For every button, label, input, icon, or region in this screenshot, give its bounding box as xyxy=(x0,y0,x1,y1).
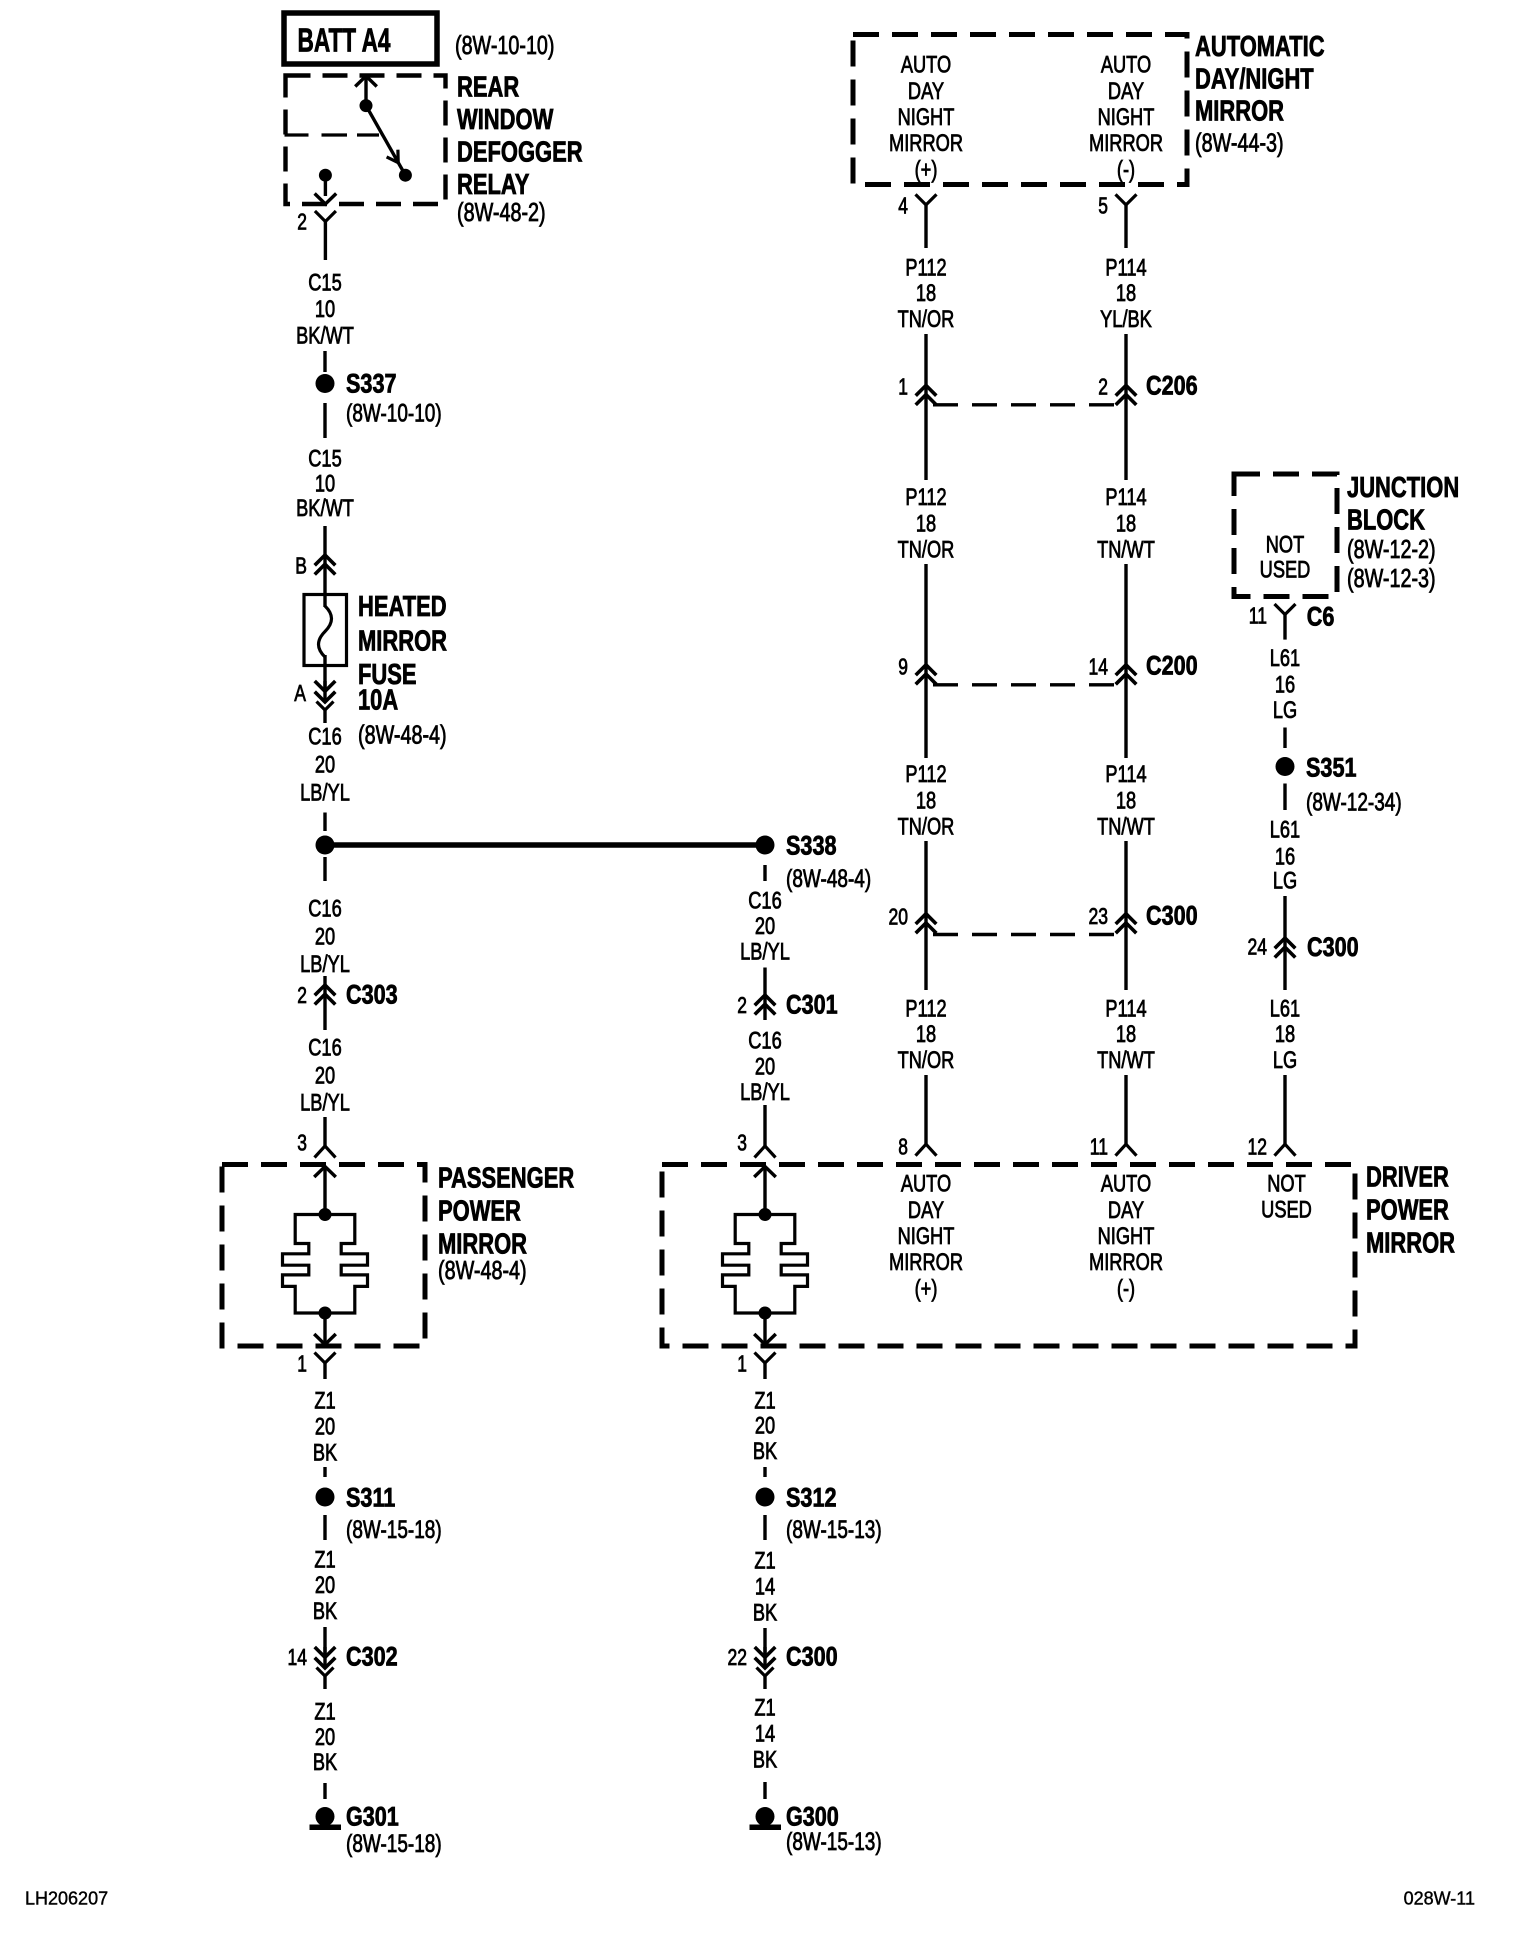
svg-text:20: 20 xyxy=(889,903,909,929)
automatic day/night mirror box xyxy=(853,35,1187,185)
ground G300 xyxy=(756,1807,775,1826)
svg-text:18: 18 xyxy=(916,280,936,307)
svg-text:(8W-15-18): (8W-15-18) xyxy=(346,1830,442,1858)
svg-text:LB/YL: LB/YL xyxy=(300,1090,350,1117)
svg-text:BK: BK xyxy=(753,1747,777,1774)
svg-text:Z1: Z1 xyxy=(314,1699,335,1726)
svg-text:HEATED: HEATED xyxy=(358,591,447,623)
svg-text:C16: C16 xyxy=(748,888,782,915)
svg-text:14: 14 xyxy=(288,1644,308,1670)
svg-text:S311: S311 xyxy=(346,1483,395,1513)
svg-text:20: 20 xyxy=(315,1572,335,1599)
svg-text:C16: C16 xyxy=(308,1035,342,1062)
power feed box BATT A4 xyxy=(284,13,437,64)
driver mirror heater exit arrow xyxy=(763,1313,766,1343)
svg-text:10: 10 xyxy=(315,471,335,498)
svg-text:TN/WT: TN/WT xyxy=(1097,814,1155,841)
svg-text:L61: L61 xyxy=(1270,996,1300,1023)
svg-text:4: 4 xyxy=(898,192,908,218)
connector C206 pin 2 xyxy=(1124,334,1127,480)
svg-text:TN/OR: TN/OR xyxy=(898,1047,955,1074)
relay switch blade with arrowhead xyxy=(366,106,405,176)
splice S337 xyxy=(316,374,335,393)
svg-text:(8W-10-10): (8W-10-10) xyxy=(455,30,555,60)
svg-text:L61: L61 xyxy=(1270,645,1300,672)
svg-text:BATT A4: BATT A4 xyxy=(298,21,391,58)
svg-text:2: 2 xyxy=(297,208,307,234)
connector C200 pin 14 xyxy=(1124,564,1127,758)
svg-text:G301: G301 xyxy=(346,1802,399,1832)
svg-text:AUTO: AUTO xyxy=(901,52,951,79)
svg-text:028W-11: 028W-11 xyxy=(1404,1889,1475,1909)
svg-text:DRIVER: DRIVER xyxy=(1366,1161,1449,1193)
svg-text:C303: C303 xyxy=(346,980,398,1010)
relay K1 rear window defogger relay box xyxy=(286,76,446,205)
svg-text:BLOCK: BLOCK xyxy=(1347,504,1425,536)
svg-text:(8W-12-2): (8W-12-2) xyxy=(1347,534,1436,564)
svg-text:NOT: NOT xyxy=(1267,1171,1306,1198)
svg-text:(-): (-) xyxy=(1117,156,1135,183)
svg-text:BK: BK xyxy=(753,1600,777,1627)
svg-text:NIGHT: NIGHT xyxy=(898,104,955,131)
svg-text:24: 24 xyxy=(1248,933,1268,959)
svg-text:Z1: Z1 xyxy=(314,1388,335,1415)
svg-text:C16: C16 xyxy=(308,896,342,923)
svg-text:LB/YL: LB/YL xyxy=(740,939,790,966)
relay divider dashed line xyxy=(285,133,380,136)
svg-text:(+): (+) xyxy=(915,156,938,183)
svg-text:14: 14 xyxy=(1089,653,1109,679)
svg-text:3: 3 xyxy=(297,1129,307,1155)
svg-text:12: 12 xyxy=(1248,1133,1268,1159)
svg-text:(8W-12-3): (8W-12-3) xyxy=(1347,563,1436,593)
svg-text:20: 20 xyxy=(315,924,335,951)
svg-text:23: 23 xyxy=(1089,903,1109,929)
svg-text:18: 18 xyxy=(916,788,936,815)
connector C300 pin 23 xyxy=(1124,841,1127,990)
svg-text:20: 20 xyxy=(315,752,335,779)
svg-text:10: 10 xyxy=(315,296,335,323)
dashed connector tie C300 xyxy=(933,933,1118,936)
svg-text:POWER: POWER xyxy=(438,1195,521,1227)
svg-text:1: 1 xyxy=(898,373,908,399)
svg-text:TN/WT: TN/WT xyxy=(1097,1047,1155,1074)
svg-text:(8W-10-10): (8W-10-10) xyxy=(346,400,442,428)
svg-text:18: 18 xyxy=(1116,280,1136,307)
svg-text:(8W-12-34): (8W-12-34) xyxy=(1306,789,1402,817)
dashed connector tie C206 xyxy=(933,403,1118,406)
svg-text:20: 20 xyxy=(755,1413,775,1440)
svg-text:(8W-15-18): (8W-15-18) xyxy=(346,1516,442,1544)
svg-text:C200: C200 xyxy=(1146,651,1198,681)
mirror heater exit arrow xyxy=(323,1313,326,1343)
splice S351 xyxy=(1276,757,1295,776)
svg-text:C15: C15 xyxy=(308,446,342,473)
svg-text:C16: C16 xyxy=(748,1028,782,1055)
splice S311 xyxy=(316,1488,335,1507)
svg-text:1: 1 xyxy=(297,1350,307,1376)
svg-text:S337: S337 xyxy=(346,369,397,399)
relay output wire to pin 2 xyxy=(324,181,327,196)
svg-text:S338: S338 xyxy=(786,831,837,861)
svg-text:20: 20 xyxy=(755,913,775,940)
svg-text:(8W-15-13): (8W-15-13) xyxy=(786,1516,882,1544)
svg-text:MIRROR: MIRROR xyxy=(1195,95,1284,127)
svg-text:(-): (-) xyxy=(1117,1275,1135,1302)
driver mirror heater entry arrow xyxy=(754,1167,776,1178)
junction node to S338 xyxy=(316,836,335,855)
passenger power mirror box xyxy=(222,1165,425,1347)
svg-text:TN/OR: TN/OR xyxy=(898,306,955,333)
ground G301 xyxy=(316,1807,335,1826)
svg-text:C302: C302 xyxy=(346,1642,398,1672)
pin 11 of driver mirror xyxy=(1124,1075,1127,1144)
svg-text:P114: P114 xyxy=(1105,761,1146,788)
svg-text:LB/YL: LB/YL xyxy=(300,951,350,978)
svg-text:TN/OR: TN/OR xyxy=(898,814,955,841)
svg-text:BK: BK xyxy=(313,1749,337,1776)
svg-text:DEFOGGER: DEFOGGER xyxy=(457,136,583,168)
relay output terminal dot xyxy=(319,169,332,182)
svg-text:(8W-48-4): (8W-48-4) xyxy=(786,865,871,893)
svg-text:MIRROR: MIRROR xyxy=(1089,130,1163,157)
svg-text:MIRROR: MIRROR xyxy=(1366,1227,1455,1259)
svg-text:20: 20 xyxy=(315,1063,335,1090)
junction block box xyxy=(1234,474,1337,597)
svg-text:P112: P112 xyxy=(905,255,946,282)
svg-text:20: 20 xyxy=(755,1054,775,1081)
svg-text:BK: BK xyxy=(313,1598,337,1625)
svg-text:2: 2 xyxy=(1098,373,1108,399)
svg-text:AUTO: AUTO xyxy=(1101,1171,1151,1198)
relay contact arm terminal arrow to BATT xyxy=(355,76,377,87)
svg-text:P112: P112 xyxy=(905,484,946,511)
svg-text:1: 1 xyxy=(737,1350,747,1376)
svg-text:LB/YL: LB/YL xyxy=(740,1079,790,1106)
svg-text:NIGHT: NIGHT xyxy=(1098,1223,1155,1250)
svg-text:WINDOW: WINDOW xyxy=(457,104,553,136)
connector C200 pin 9 xyxy=(924,564,927,758)
svg-text:DAY: DAY xyxy=(908,1197,944,1224)
svg-text:BK: BK xyxy=(313,1440,337,1467)
svg-text:Z1: Z1 xyxy=(754,1548,775,1575)
pin 12 of driver mirror xyxy=(1283,1075,1286,1144)
relay contact dot NO xyxy=(399,169,412,182)
svg-text:14: 14 xyxy=(755,1721,775,1748)
svg-text:18: 18 xyxy=(1116,511,1136,538)
svg-text:MIRROR: MIRROR xyxy=(358,625,447,657)
pin 8 of driver mirror xyxy=(924,1075,927,1144)
svg-text:C300: C300 xyxy=(1307,932,1359,962)
svg-text:L61: L61 xyxy=(1270,817,1300,844)
svg-text:20: 20 xyxy=(315,1724,335,1751)
svg-text:2: 2 xyxy=(297,982,307,1008)
svg-text:C15: C15 xyxy=(308,270,342,297)
svg-text:AUTO: AUTO xyxy=(1101,52,1151,79)
svg-text:3: 3 xyxy=(737,1129,747,1155)
svg-text:C206: C206 xyxy=(1146,371,1198,401)
svg-text:JUNCTION: JUNCTION xyxy=(1347,472,1459,504)
svg-text:C300: C300 xyxy=(786,1642,838,1672)
svg-text:C16: C16 xyxy=(308,724,342,751)
svg-text:DAY: DAY xyxy=(1108,78,1144,105)
svg-text:MIRROR: MIRROR xyxy=(889,130,963,157)
svg-text:(+): (+) xyxy=(915,1275,938,1302)
svg-text:AUTO: AUTO xyxy=(901,1171,951,1198)
mirror heater entry arrow xyxy=(314,1167,336,1178)
svg-text:Z1: Z1 xyxy=(754,1388,775,1415)
svg-text:18: 18 xyxy=(916,511,936,538)
svg-text:5: 5 xyxy=(1098,192,1108,218)
svg-text:NIGHT: NIGHT xyxy=(1098,104,1155,131)
svg-text:BK: BK xyxy=(753,1438,777,1465)
svg-text:C6: C6 xyxy=(1307,602,1335,632)
dashed connector tie C200 xyxy=(933,683,1118,686)
connector C300 pin 24 xyxy=(1283,896,1286,990)
wire bus to splice S338 xyxy=(327,842,763,848)
svg-text:22: 22 xyxy=(728,1644,748,1670)
svg-text:18: 18 xyxy=(916,1021,936,1048)
svg-text:18: 18 xyxy=(1116,788,1136,815)
svg-text:LG: LG xyxy=(1273,1047,1297,1074)
svg-text:C300: C300 xyxy=(1146,901,1198,931)
svg-text:BK/WT: BK/WT xyxy=(296,323,354,350)
svg-text:11: 11 xyxy=(1090,1133,1108,1159)
svg-text:AUTOMATIC: AUTOMATIC xyxy=(1195,31,1325,63)
svg-text:USED: USED xyxy=(1261,1197,1312,1224)
svg-text:P112: P112 xyxy=(905,761,946,788)
svg-text:PASSENGER: PASSENGER xyxy=(438,1162,574,1194)
svg-text:DAY: DAY xyxy=(1108,1197,1144,1224)
svg-text:NIGHT: NIGHT xyxy=(898,1223,955,1250)
svg-text:TN/WT: TN/WT xyxy=(1097,537,1155,564)
svg-text:BK/WT: BK/WT xyxy=(296,495,354,522)
svg-text:14: 14 xyxy=(755,1574,775,1601)
svg-text:LB/YL: LB/YL xyxy=(300,780,350,807)
svg-text:REAR: REAR xyxy=(457,71,519,103)
svg-text:18: 18 xyxy=(1275,1021,1295,1048)
driver power mirror box xyxy=(662,1165,1355,1347)
connector C206 pin 1 xyxy=(924,334,927,480)
svg-text:9: 9 xyxy=(898,653,908,679)
svg-text:USED: USED xyxy=(1260,557,1311,584)
svg-text:Z1: Z1 xyxy=(754,1695,775,1722)
svg-text:MIRROR: MIRROR xyxy=(1089,1249,1163,1276)
svg-text:(8W-48-4): (8W-48-4) xyxy=(438,1255,527,1285)
svg-text:Z1: Z1 xyxy=(314,1547,335,1574)
svg-text:(8W-44-3): (8W-44-3) xyxy=(1195,127,1284,157)
svg-text:P112: P112 xyxy=(905,996,946,1023)
svg-text:NOT: NOT xyxy=(1266,532,1305,559)
svg-text:(8W-48-2): (8W-48-2) xyxy=(457,197,546,227)
svg-text:YL/BK: YL/BK xyxy=(1100,306,1152,333)
svg-text:S351: S351 xyxy=(1306,753,1357,783)
svg-text:DAY: DAY xyxy=(908,78,944,105)
svg-text:16: 16 xyxy=(1275,844,1295,871)
heater grid element passenger xyxy=(319,1208,332,1221)
svg-text:TN/OR: TN/OR xyxy=(898,537,955,564)
svg-text:B: B xyxy=(295,552,307,578)
svg-text:POWER: POWER xyxy=(1366,1194,1449,1226)
svg-text:18: 18 xyxy=(1116,1021,1136,1048)
svg-text:P114: P114 xyxy=(1105,255,1146,282)
svg-text:10A: 10A xyxy=(358,684,398,716)
svg-text:20: 20 xyxy=(315,1414,335,1441)
svg-text:MIRROR: MIRROR xyxy=(889,1249,963,1276)
splice S312 xyxy=(756,1488,775,1507)
svg-text:LG: LG xyxy=(1273,697,1297,724)
svg-text:2: 2 xyxy=(737,992,747,1018)
connector C300 pin 20 xyxy=(924,841,927,990)
svg-text:8: 8 xyxy=(898,1133,908,1159)
svg-text:P114: P114 xyxy=(1105,484,1146,511)
svg-text:DAY/NIGHT: DAY/NIGHT xyxy=(1195,63,1314,95)
svg-text:A: A xyxy=(294,680,306,706)
svg-text:LH206207: LH206207 xyxy=(25,1889,108,1909)
relay common pivot dot xyxy=(360,99,373,112)
svg-text:(8W-15-13): (8W-15-13) xyxy=(786,1828,882,1856)
heater grid element driver xyxy=(759,1208,772,1221)
svg-text:11: 11 xyxy=(1249,602,1267,628)
svg-text:(8W-48-4): (8W-48-4) xyxy=(358,719,447,749)
svg-text:16: 16 xyxy=(1275,672,1295,699)
svg-text:P114: P114 xyxy=(1105,996,1146,1023)
splice S338 xyxy=(756,836,775,855)
svg-text:C301: C301 xyxy=(786,990,838,1020)
svg-text:S312: S312 xyxy=(786,1483,837,1513)
fuse F heated mirror fuse 10A xyxy=(304,595,347,666)
svg-text:LG: LG xyxy=(1273,868,1297,895)
